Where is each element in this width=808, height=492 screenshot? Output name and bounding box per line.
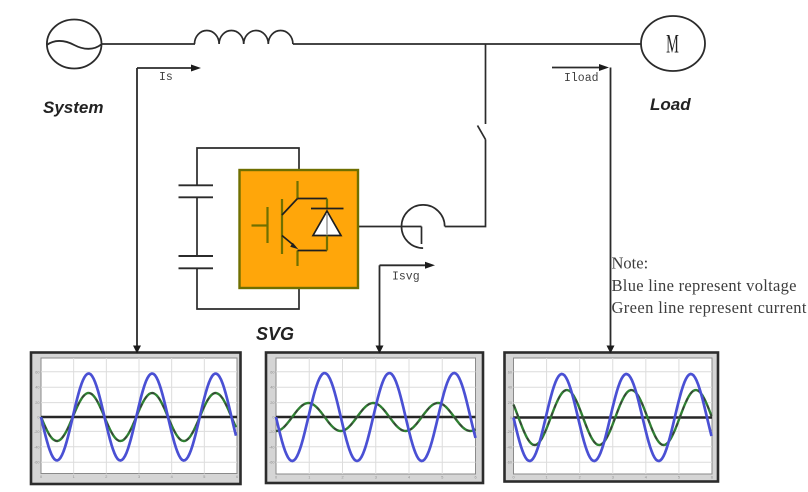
svg-text:20: 20: [508, 401, 512, 405]
svg-text:60: 60: [508, 370, 512, 374]
AC source G1: [47, 20, 102, 69]
oscilloscope 2 tick labels: [269, 370, 477, 479]
capacitor C1: [179, 185, 214, 197]
arrowhead into oscilloscope 2: [376, 346, 384, 354]
svg-text:3: 3: [138, 475, 140, 479]
oscilloscope 1 gridlines: [41, 358, 237, 474]
note text: [612, 254, 807, 318]
svg-text:60: 60: [35, 370, 39, 374]
oscilloscope 2 frame: [266, 353, 483, 484]
DC link loop bottom wire: [197, 268, 299, 309]
svg-text:0: 0: [275, 476, 277, 480]
oscilloscope 2 zero axis: [276, 416, 476, 419]
svg-text:Is: Is: [159, 71, 173, 84]
wire Isvg tap down to scope 2: [379, 265, 381, 346]
oscilloscope 2 gridlines: [276, 358, 476, 474]
oscilloscope 3 plot area: [514, 358, 713, 474]
svg-text:2: 2: [579, 476, 581, 480]
svg-text:0: 0: [510, 416, 512, 420]
svg-text:0: 0: [512, 476, 514, 480]
svg-text:4: 4: [171, 475, 173, 479]
svg-text:20: 20: [35, 401, 39, 405]
svg-text:60: 60: [270, 370, 274, 374]
wire Is tap down to scope 1: [136, 68, 138, 346]
svg-text:2: 2: [341, 476, 343, 480]
oscilloscope 3 gridlines: [514, 358, 713, 474]
svg-text:6: 6: [236, 475, 238, 479]
current transformer CT1: [402, 205, 445, 248]
svg-text:40: 40: [35, 386, 39, 390]
current arrow Isvg: [380, 262, 436, 269]
oscilloscope 1 green current wave: [41, 393, 236, 441]
svg-text:0: 0: [37, 416, 39, 420]
svg-text:4: 4: [408, 476, 410, 480]
wire junction to switch: [485, 44, 487, 124]
svg-text:Blue line represent voltage: Blue line represent voltage: [612, 276, 797, 295]
svg-text:-20: -20: [269, 430, 275, 434]
svg-text:6: 6: [711, 476, 713, 480]
oscilloscope 3 blue voltage wave: [514, 374, 712, 461]
svg-text:SVG: SVG: [256, 324, 294, 344]
oscilloscope 1 frame: [31, 353, 241, 485]
arrowhead into oscilloscope 1: [133, 346, 141, 354]
svg-text:Note:: Note:: [612, 254, 649, 273]
svg-text:0: 0: [272, 416, 274, 420]
svg-text:20: 20: [270, 401, 274, 405]
svg-text:5: 5: [678, 476, 680, 480]
oscilloscope 1 tick labels: [34, 370, 238, 479]
svg-text:-40: -40: [269, 445, 275, 449]
svg-text:-40: -40: [34, 445, 40, 449]
svg-text:6: 6: [474, 476, 476, 480]
svg-text:Green line represent current: Green line represent current: [612, 298, 807, 317]
svg-text:System: System: [43, 98, 103, 117]
svg-text:-20: -20: [34, 430, 40, 434]
svg-text:1: 1: [546, 476, 548, 480]
arrowhead into oscilloscope 3: [607, 346, 615, 354]
oscilloscope 2 blue voltage wave: [276, 373, 476, 461]
svg-text:-40: -40: [507, 445, 513, 449]
svg-text:-20: -20: [507, 430, 513, 434]
svg-text:1: 1: [308, 476, 310, 480]
oscilloscope 3 frame: [505, 353, 719, 482]
svg-text:M: M: [666, 29, 679, 59]
svg-text:Iload: Iload: [564, 72, 599, 85]
wire between capacitors: [196, 197, 198, 256]
svg-text:1: 1: [73, 475, 75, 479]
IGBT Q1: [252, 181, 328, 266]
svg-text:Load: Load: [650, 95, 691, 114]
DC link loop top wire: [197, 148, 299, 185]
wire source to inductor: [102, 43, 196, 45]
svg-text:4: 4: [645, 476, 647, 480]
svg-text:Isvg: Isvg: [392, 271, 420, 284]
svg-text:0: 0: [40, 475, 42, 479]
wire CT to SVG box: [359, 226, 422, 228]
free-wheel diode D1: [311, 199, 344, 251]
svg-text:-60: -60: [269, 461, 275, 465]
svg-text:3: 3: [612, 476, 614, 480]
oscilloscope 1 blue voltage wave: [41, 374, 236, 461]
svg-text:40: 40: [508, 386, 512, 390]
svg-text:-60: -60: [34, 461, 40, 465]
oscilloscope 2 green current wave: [276, 403, 476, 431]
wire Iload tap down to scope 3: [610, 68, 612, 347]
oscilloscope 3 zero axis: [514, 416, 713, 419]
current arrow Is: [137, 65, 201, 72]
oscilloscope 2 plot area: [276, 358, 476, 474]
wire inductor to motor: [293, 43, 641, 45]
oscilloscope 1 plot area: [41, 358, 237, 474]
svg-text:5: 5: [203, 475, 205, 479]
svg-text:3: 3: [375, 476, 377, 480]
current arrow Iload: [552, 64, 609, 71]
switch S1 blade: [478, 126, 486, 140]
svg-text:-60: -60: [507, 461, 513, 465]
svg-text:5: 5: [441, 476, 443, 480]
svg-text:40: 40: [270, 386, 274, 390]
SVG converter box U1: [240, 170, 359, 288]
oscilloscope 3 tick labels: [507, 370, 714, 479]
svg-text:2: 2: [105, 475, 107, 479]
oscilloscope 1 zero axis: [41, 416, 237, 419]
wire switch to CT corner: [445, 140, 486, 227]
capacitor C2: [179, 256, 214, 268]
oscilloscope 3 green current wave: [514, 390, 712, 445]
inductor L1: [195, 31, 293, 45]
motor M1: [641, 16, 705, 71]
